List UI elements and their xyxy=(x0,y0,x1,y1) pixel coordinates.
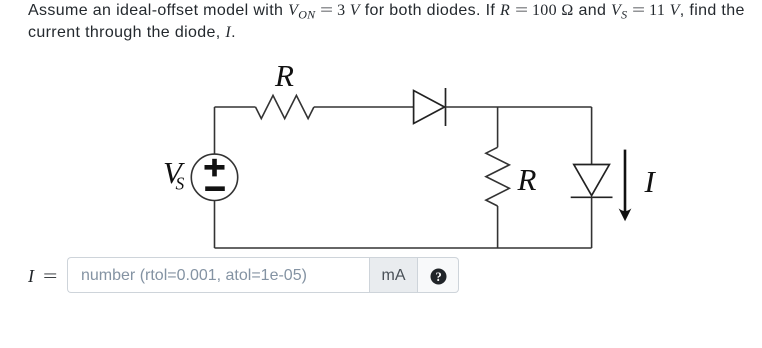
wire: right branch bottom xyxy=(591,197,593,248)
wire: middle branch bottom xyxy=(497,206,499,248)
diode D2 (output, cathode down) xyxy=(571,165,613,198)
resistor R2 (shunt) xyxy=(486,147,509,206)
help icon question-circle xyxy=(430,268,447,285)
answer label I = xyxy=(28,266,53,287)
resistor R1 (top series) xyxy=(256,95,314,118)
wire: top rail right segment xyxy=(446,106,592,108)
current arrow I xyxy=(619,150,632,222)
svg-text:S: S xyxy=(176,174,185,194)
wire: top rail left segment xyxy=(215,106,256,108)
voltage source VS xyxy=(191,154,237,200)
wire: right branch top xyxy=(591,107,593,165)
svg-text:R: R xyxy=(517,162,537,197)
answer input group xyxy=(67,257,459,293)
svg-text:I: I xyxy=(644,164,657,199)
wire: top rail middle segment xyxy=(314,106,414,108)
svg-text:R: R xyxy=(274,58,294,93)
wire: middle branch top xyxy=(497,107,499,147)
question paragraph xyxy=(28,0,758,44)
wire: left branch top xyxy=(214,107,216,154)
wire: left branch bottom xyxy=(214,201,216,249)
wire: bottom rail xyxy=(215,247,592,249)
diode D1 (series, anode left) xyxy=(414,88,446,126)
svg-text:?: ? xyxy=(435,269,441,283)
